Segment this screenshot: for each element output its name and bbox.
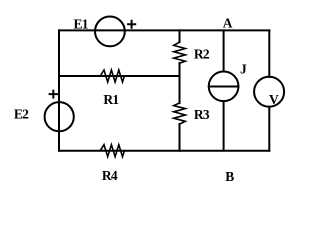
wire J branch top [223,30,225,71]
polarity plus of E2 [50,91,57,98]
svg-text:R4: R4 [102,168,118,183]
wire R2/R3 branch bottom [179,124,181,151]
resistor R3 [174,103,186,124]
svg-text:A: A [223,16,233,31]
svg-text:R1: R1 [103,92,119,107]
svg-text:E1: E1 [74,17,89,32]
polarity plus of E1 [128,21,135,28]
wire middle (R1 row) [59,75,180,77]
wire R2/R3 branch top [179,30,181,42]
voltage source E1 [95,17,125,47]
wire V branch top [268,30,270,76]
voltmeter V [254,77,284,107]
resistor R2 [174,42,186,63]
wire J branch bottom [223,101,225,151]
current source J [209,71,239,101]
resistor R4 [100,145,124,157]
svg-text:R3: R3 [194,107,210,122]
svg-text:E2: E2 [14,106,29,121]
current source J bar [209,86,239,88]
svg-text:B: B [225,169,234,184]
voltage source E2 [45,102,74,131]
wire V branch bottom [268,107,270,151]
svg-text:R2: R2 [194,47,210,62]
svg-text:J: J [240,62,247,77]
wire bottom (node B rail) [59,150,269,152]
wire top (node A rail) [59,29,269,31]
resistor R1 [100,70,124,82]
svg-text:V: V [269,92,279,107]
wire R2/R3 branch middle [179,63,181,103]
wire left branch [58,30,60,150]
